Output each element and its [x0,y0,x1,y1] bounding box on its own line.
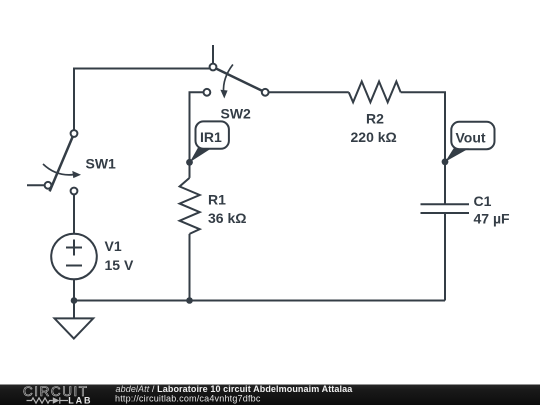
node: IR1 probe dot [186,159,193,166]
wire: R2 across and down to C1 top plate [401,92,445,204]
wire: stub to SW1 left throw [27,184,44,186]
resistor R2 [349,82,401,103]
svg-text:SW2: SW2 [221,106,252,122]
svg-text:47 µF: 47 µF [474,210,511,226]
wire: SW2 left throw down to R1 top [190,92,204,178]
svg-text:V1: V1 [105,238,122,254]
node: Vout probe dot [442,158,449,165]
capacitor C1 [421,204,470,213]
CircuitLab logo [23,384,92,405]
wire: R1 bottom lead [189,234,191,301]
label V1 15 V [105,238,134,273]
footer bar [0,385,540,405]
node: ground junction dot [71,297,78,304]
svg-text:C1: C1 [474,193,492,209]
svg-text:220 kΩ: 220 kΩ [351,129,397,145]
resistor R1 [180,178,200,234]
wire: C1 bottom lead [444,213,446,301]
svg-text:15 V: 15 V [105,257,134,273]
wire: bottom rail [74,300,445,302]
label R2 220 kΩ [351,111,397,146]
wire: SW1 top terminal up and across to SW2 pivot [74,69,209,130]
node: R1 bottom junction dot [186,297,193,304]
svg-text:SW1: SW1 [86,155,117,171]
voltage source V1 [51,234,97,280]
svg-text:R2: R2 [366,111,384,127]
wire: SW2 right throw to R2 [269,91,349,93]
svg-text:http://circuitlab.com/ca4vnhtg: http://circuitlab.com/ca4vnhtg7dfbc [115,394,261,404]
label C1 47 µF [474,193,511,227]
flag IR1 [190,121,229,162]
svg-text:abdelAtt / Laboratoire 10 circ: abdelAtt / Laboratoire 10 circuit Abdelm… [116,384,354,394]
svg-text:R1: R1 [208,192,226,208]
wire: SW1 bottom terminal to V1 plus [73,195,75,234]
switch SW2 [204,64,269,99]
svg-text:Vout: Vout [456,129,486,145]
svg-text:LAB: LAB [68,395,92,405]
flag Vout [445,122,494,162]
label R1 36 kΩ [208,192,246,227]
wire: SW2 common stub [212,45,214,63]
svg-text:36 kΩ: 36 kΩ [208,210,246,226]
wire: V1 minus to ground junction [73,279,75,300]
ground [55,301,94,339]
switch SW1 [43,130,81,194]
svg-text:IR1: IR1 [200,129,222,145]
